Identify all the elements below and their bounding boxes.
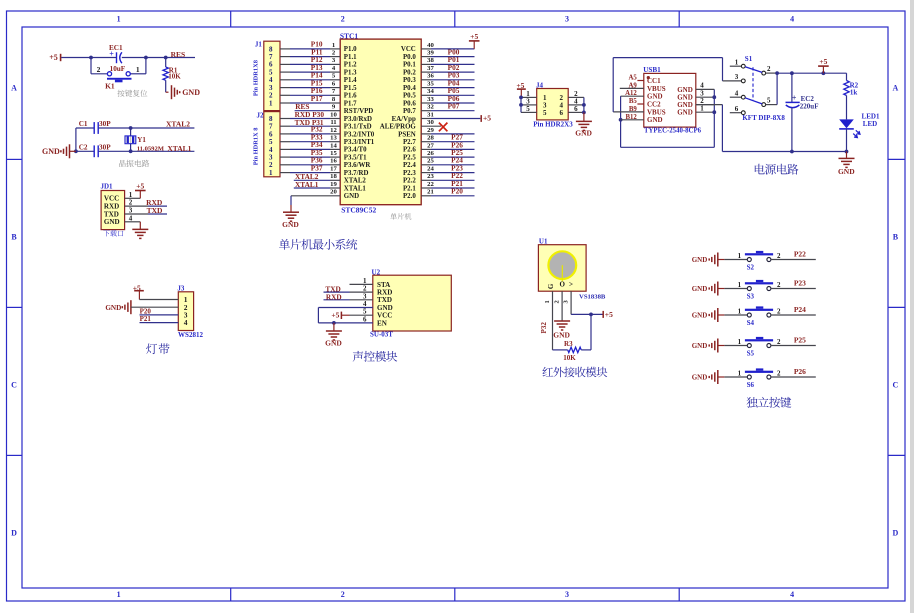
- svg-text:P1.7: P1.7: [344, 100, 357, 107]
- svg-text:P2.2: P2.2: [403, 178, 416, 185]
- svg-text:11.0592M: 11.0592M: [137, 146, 165, 153]
- svg-text:1: 1: [129, 191, 133, 199]
- svg-text:RXD: RXD: [326, 292, 342, 301]
- svg-text:P0.3: P0.3: [403, 77, 416, 84]
- svg-text:GND: GND: [325, 338, 342, 347]
- svg-text:P1.0: P1.0: [344, 46, 357, 53]
- svg-text:4: 4: [129, 214, 133, 222]
- svg-text:J1: J1: [255, 40, 263, 48]
- svg-text:P0.4: P0.4: [403, 85, 416, 92]
- svg-text:P17: P17: [311, 94, 323, 103]
- svg-text:ALE/PROG: ALE/PROG: [380, 124, 417, 131]
- svg-text:+5: +5: [470, 32, 478, 41]
- svg-text:15: 15: [330, 150, 337, 157]
- svg-text:+: +: [109, 50, 114, 59]
- svg-text:34: 34: [427, 88, 434, 95]
- svg-text:GND: GND: [692, 256, 708, 264]
- svg-text:P1.5: P1.5: [344, 85, 357, 92]
- svg-text:10uF: 10uF: [110, 65, 126, 73]
- svg-text:GND: GND: [282, 220, 299, 229]
- svg-text:21: 21: [427, 189, 434, 196]
- svg-text:XTAL1: XTAL1: [167, 144, 191, 153]
- svg-text:PSEN: PSEN: [398, 131, 416, 138]
- svg-text:B5: B5: [629, 98, 638, 105]
- svg-text:18: 18: [330, 173, 337, 180]
- svg-text:VCC: VCC: [401, 46, 416, 53]
- svg-text:14: 14: [330, 142, 337, 149]
- svg-text:P24: P24: [794, 305, 806, 314]
- svg-text:P21: P21: [140, 315, 152, 323]
- svg-text:XTAL2: XTAL2: [344, 178, 367, 185]
- svg-text:22: 22: [427, 181, 434, 188]
- svg-text:3: 3: [565, 15, 569, 24]
- svg-text:S3: S3: [747, 292, 755, 300]
- svg-text:26: 26: [427, 150, 434, 157]
- svg-text:6: 6: [735, 105, 739, 113]
- svg-text:13: 13: [330, 135, 337, 142]
- svg-text:GND: GND: [553, 331, 570, 340]
- svg-text:J3: J3: [177, 284, 185, 292]
- svg-text:VBUS: VBUS: [647, 108, 666, 116]
- svg-text:D: D: [893, 529, 899, 538]
- svg-text:P2.5: P2.5: [403, 155, 416, 162]
- svg-text:+5: +5: [819, 57, 827, 66]
- svg-text:29: 29: [427, 127, 434, 134]
- svg-text:GND: GND: [182, 88, 200, 97]
- svg-text:RST/VPD: RST/VPD: [344, 108, 374, 115]
- svg-text:P3.5/T1: P3.5/T1: [344, 155, 367, 162]
- svg-text:3: 3: [565, 590, 569, 599]
- svg-text:32: 32: [427, 104, 434, 111]
- svg-text:6: 6: [269, 61, 273, 69]
- svg-text:30P: 30P: [99, 120, 111, 128]
- svg-text:P1.4: P1.4: [344, 77, 357, 84]
- svg-text:25: 25: [427, 158, 434, 165]
- svg-text:Y1: Y1: [137, 136, 146, 144]
- svg-text:P3.3/INT1: P3.3/INT1: [344, 139, 375, 146]
- svg-text:4: 4: [184, 318, 188, 327]
- svg-text:P2.6: P2.6: [403, 147, 416, 154]
- svg-text:P37: P37: [311, 163, 323, 172]
- svg-text:P2.3: P2.3: [403, 170, 416, 177]
- svg-text:P3.4/T0: P3.4/T0: [344, 147, 367, 154]
- svg-text:38: 38: [427, 57, 434, 64]
- svg-text:+5: +5: [136, 182, 144, 191]
- svg-text:2: 2: [269, 161, 273, 169]
- svg-text:P22: P22: [794, 249, 806, 258]
- svg-text:16: 16: [330, 158, 337, 165]
- svg-text:TXD: TXD: [147, 206, 163, 215]
- svg-text:12: 12: [330, 127, 337, 134]
- svg-text:P23: P23: [794, 278, 806, 287]
- svg-text:4: 4: [735, 89, 739, 97]
- svg-text:S4: S4: [747, 319, 755, 327]
- svg-text:GND: GND: [838, 167, 855, 176]
- svg-text:RXD: RXD: [104, 203, 119, 211]
- svg-text:A5: A5: [628, 75, 637, 82]
- svg-text:VBUS: VBUS: [647, 85, 666, 93]
- svg-text:33: 33: [427, 96, 434, 103]
- svg-text:4: 4: [700, 82, 704, 90]
- svg-text:STC89C52: STC89C52: [341, 205, 376, 214]
- svg-text:1: 1: [738, 308, 742, 316]
- svg-text:S5: S5: [747, 349, 755, 357]
- svg-text:19: 19: [330, 181, 337, 188]
- svg-text:+5: +5: [483, 113, 491, 122]
- svg-text:1k: 1k: [850, 88, 858, 96]
- svg-text:D: D: [11, 529, 17, 538]
- svg-text:P3.6/WR: P3.6/WR: [344, 162, 372, 169]
- svg-text:28: 28: [427, 135, 434, 142]
- svg-text:GND: GND: [42, 147, 60, 156]
- svg-text:P07: P07: [448, 102, 460, 111]
- svg-text:2: 2: [554, 300, 561, 303]
- svg-text:39: 39: [427, 50, 434, 57]
- svg-text:Pin HDR2X3: Pin HDR2X3: [533, 121, 573, 129]
- svg-text:VS1838B: VS1838B: [579, 293, 606, 300]
- svg-text:GND: GND: [105, 304, 121, 312]
- svg-text:P1.3: P1.3: [344, 69, 357, 76]
- svg-text:GND: GND: [692, 342, 708, 350]
- svg-text:GND: GND: [647, 116, 663, 124]
- svg-text:10K: 10K: [168, 73, 181, 81]
- svg-text:LED: LED: [863, 120, 877, 128]
- svg-text:A: A: [11, 84, 17, 93]
- svg-text:P2.1: P2.1: [403, 185, 416, 192]
- svg-text:P2.7: P2.7: [403, 139, 416, 146]
- svg-text:C: C: [893, 381, 899, 390]
- svg-text:JD1: JD1: [100, 182, 113, 190]
- svg-text:VCC: VCC: [104, 195, 119, 203]
- svg-text:J2: J2: [257, 112, 265, 120]
- svg-text:O: O: [559, 280, 565, 288]
- svg-text:P26: P26: [794, 367, 806, 376]
- svg-text:EN: EN: [377, 319, 388, 327]
- svg-text:GND: GND: [692, 285, 708, 293]
- svg-text:+5: +5: [331, 311, 339, 320]
- svg-text:4: 4: [790, 15, 794, 24]
- svg-text:3: 3: [735, 73, 739, 81]
- svg-text:P0.1: P0.1: [403, 62, 416, 69]
- svg-text:1: 1: [136, 65, 140, 74]
- svg-text:P1.1: P1.1: [344, 54, 357, 61]
- svg-text:6: 6: [363, 315, 367, 323]
- svg-text:2: 2: [129, 199, 133, 207]
- svg-text:P0.7: P0.7: [403, 108, 416, 115]
- svg-text:2: 2: [341, 15, 345, 24]
- svg-text:GND: GND: [692, 311, 708, 319]
- svg-text:P0.5: P0.5: [403, 93, 416, 100]
- svg-text:KFT DIP-8X8: KFT DIP-8X8: [742, 114, 785, 122]
- svg-text:10: 10: [330, 111, 337, 118]
- svg-text:17: 17: [330, 166, 337, 173]
- svg-text:31: 31: [427, 111, 434, 118]
- svg-text:2: 2: [97, 65, 101, 74]
- svg-text:CC1: CC1: [647, 77, 661, 85]
- svg-text:1: 1: [700, 104, 704, 112]
- svg-text:TXD: TXD: [104, 210, 119, 218]
- svg-text:30P: 30P: [99, 143, 111, 151]
- svg-text:SU-03T: SU-03T: [370, 330, 393, 338]
- svg-text:P3.2/INT0: P3.2/INT0: [344, 131, 375, 138]
- svg-text:GND: GND: [575, 128, 592, 137]
- svg-text:Pin HDR1X 8: Pin HDR1X 8: [253, 128, 260, 166]
- svg-text:P0.2: P0.2: [403, 69, 416, 76]
- svg-text:K1: K1: [105, 82, 115, 91]
- svg-text:+: +: [792, 93, 797, 102]
- svg-text:XTAL1: XTAL1: [295, 180, 319, 189]
- svg-text:5: 5: [526, 105, 530, 113]
- svg-text:11: 11: [330, 119, 336, 126]
- svg-text:GND: GND: [677, 109, 693, 117]
- svg-text:1: 1: [269, 169, 273, 177]
- svg-text:6: 6: [560, 109, 564, 117]
- svg-text:35: 35: [427, 80, 434, 87]
- svg-text:S1: S1: [745, 55, 753, 63]
- svg-text:R3: R3: [564, 340, 573, 348]
- svg-text:TYPEC-2540-8CP6: TYPEC-2540-8CP6: [644, 128, 702, 135]
- svg-text:EA/Vpp: EA/Vpp: [392, 116, 416, 123]
- svg-text:1: 1: [738, 338, 742, 346]
- svg-text:GND: GND: [647, 93, 663, 101]
- svg-text:6: 6: [574, 105, 578, 113]
- svg-text:>: >: [569, 280, 573, 288]
- svg-text:40: 40: [427, 42, 434, 49]
- svg-text:220uF: 220uF: [800, 103, 819, 111]
- svg-text:P20: P20: [451, 187, 463, 196]
- svg-text:GND: GND: [677, 86, 693, 94]
- svg-text:1: 1: [735, 58, 739, 66]
- svg-text:GND: GND: [692, 373, 708, 381]
- svg-text:C2: C2: [79, 143, 88, 151]
- svg-text:37: 37: [427, 65, 434, 72]
- svg-text:30: 30: [427, 119, 434, 126]
- svg-text:1: 1: [269, 99, 273, 107]
- svg-text:1: 1: [117, 15, 121, 24]
- svg-text:C: C: [11, 381, 17, 390]
- svg-text:S2: S2: [747, 263, 755, 271]
- svg-text:B: B: [893, 233, 899, 242]
- svg-text:P2.0: P2.0: [403, 193, 416, 200]
- svg-text:10K: 10K: [563, 354, 576, 362]
- svg-text:1: 1: [332, 42, 335, 49]
- svg-text:5: 5: [767, 97, 771, 105]
- svg-text:24: 24: [427, 166, 434, 173]
- svg-text:1: 1: [117, 590, 121, 599]
- svg-text:P1.6: P1.6: [344, 93, 357, 100]
- svg-text:P32: P32: [540, 322, 548, 334]
- svg-text:8: 8: [269, 115, 273, 123]
- svg-text:P2.4: P2.4: [403, 162, 416, 169]
- svg-text:3: 3: [269, 84, 273, 92]
- svg-text:4: 4: [790, 590, 794, 599]
- svg-text:XTAL1: XTAL1: [344, 185, 367, 192]
- svg-text:GND: GND: [104, 218, 120, 226]
- svg-text:2: 2: [767, 65, 771, 73]
- svg-text:1: 1: [738, 370, 742, 378]
- svg-text:5: 5: [269, 138, 273, 146]
- svg-text:GND: GND: [344, 193, 359, 200]
- svg-text:XTAL2: XTAL2: [166, 119, 190, 128]
- svg-text:CC2: CC2: [647, 100, 661, 108]
- svg-text:5: 5: [543, 109, 547, 117]
- svg-text:23: 23: [427, 173, 434, 180]
- svg-text:Pin HDR1X8: Pin HDR1X8: [253, 60, 260, 96]
- svg-text:20: 20: [330, 189, 337, 196]
- svg-text:3: 3: [129, 207, 133, 215]
- svg-text:36: 36: [427, 73, 434, 80]
- svg-text:27: 27: [427, 142, 434, 149]
- svg-text:+5: +5: [605, 310, 613, 319]
- svg-text:RES: RES: [171, 50, 186, 59]
- svg-text:P1.2: P1.2: [344, 62, 357, 69]
- svg-text:P3.0/RxD: P3.0/RxD: [344, 116, 372, 123]
- svg-text:1: 1: [738, 252, 742, 260]
- svg-text:B: B: [11, 233, 17, 242]
- svg-text:1: 1: [738, 281, 742, 289]
- svg-text:S6: S6: [747, 381, 755, 389]
- svg-text:C1: C1: [79, 120, 88, 128]
- svg-text:A: A: [893, 84, 899, 93]
- svg-text:P3.1/TxD: P3.1/TxD: [344, 124, 372, 131]
- svg-text:G: G: [547, 283, 555, 289]
- svg-text:P25: P25: [794, 335, 806, 344]
- svg-text:P0.0: P0.0: [403, 54, 416, 61]
- svg-text:P0.6: P0.6: [403, 100, 416, 107]
- svg-text:P3.7/RD: P3.7/RD: [344, 170, 369, 177]
- svg-text:2: 2: [341, 590, 345, 599]
- svg-text:WS2812: WS2812: [178, 331, 203, 339]
- svg-text:+5: +5: [49, 53, 58, 62]
- svg-text:1: 1: [544, 300, 551, 303]
